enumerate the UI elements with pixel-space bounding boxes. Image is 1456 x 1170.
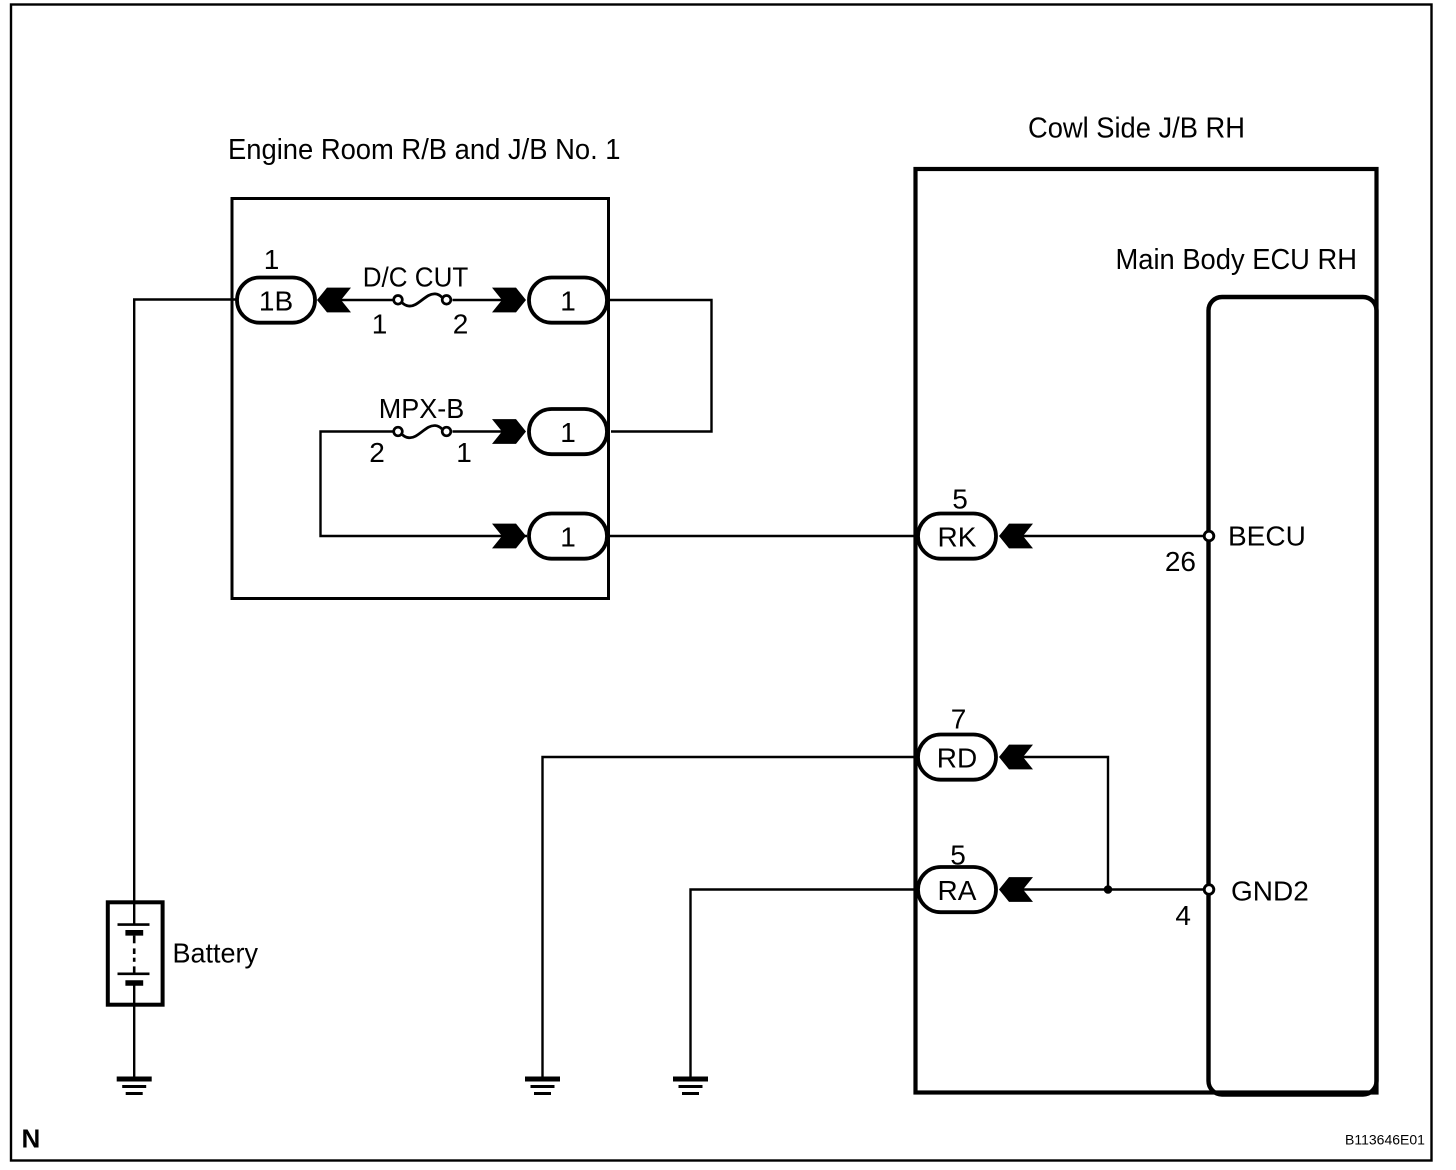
svg-text:RK: RK [938,522,977,553]
connector RA [918,867,996,912]
svg-text:1: 1 [560,522,576,553]
svg-text:Engine Room R/B and J/B No. 1: Engine Room R/B and J/B No. 1 [228,134,621,166]
svg-text:GND2: GND2 [1231,876,1309,907]
wire fuse MPX-B to connector 1 row2 [453,430,503,432]
wire 1B to fuse D/C CUT [341,299,398,301]
arrow into RA [999,877,1033,902]
fuse MPX-B [369,393,472,468]
svg-text:2: 2 [453,309,469,340]
wire row3 to RK [609,535,916,537]
svg-text:1: 1 [560,417,576,448]
connector RK [918,514,996,559]
svg-text:4: 4 [1175,900,1191,931]
wire fuse D/C CUT to connector 1 row1 [453,299,503,301]
svg-text:MPX-B: MPX-B [379,393,465,424]
svg-text:2: 2 [369,437,385,468]
svg-text:Main Body ECU RH: Main Body ECU RH [1116,244,1358,276]
wire RK to BECU [1023,535,1209,537]
wire RD arrow to junction [1023,757,1108,890]
svg-text:RD: RD [937,743,977,774]
ground battery [117,1079,152,1094]
svg-text:B113646E01: B113646E01 [1345,1132,1425,1148]
svg-text:Battery: Battery [173,938,259,969]
wire battery to connector 1B [134,300,237,902]
ECU Main Body ECU RH [1116,244,1377,1095]
connector 1B [237,278,315,323]
arrow into connector 1 row2 [492,419,526,444]
svg-text:1: 1 [372,309,388,340]
wire loop row1 to row2 [609,300,712,432]
wire RA to GND2 [1023,888,1209,890]
battery [108,901,258,1005]
junction dot [1104,885,1113,894]
arrow into 1B [317,288,351,313]
svg-text:Cowl Side J/B RH: Cowl Side J/B RH [1028,112,1245,144]
svg-text:1: 1 [560,286,576,317]
svg-text:26: 26 [1165,546,1196,577]
junction block Engine Room R/B and J/B No. 1 [228,134,621,599]
svg-text:D/C CUT: D/C CUT [363,262,469,293]
arrow into RD [999,745,1033,770]
arrow into RK [999,524,1033,549]
junction block Cowl Side J/B RH [916,112,1377,1092]
svg-text:N: N [22,1124,41,1154]
connector 1 row2 [529,409,607,454]
connector 1 row3 [529,514,607,559]
wire battery to ground [133,1005,135,1077]
node BECU pin 26 [1165,521,1306,578]
svg-text:1: 1 [264,244,280,275]
wire RD to ground [543,757,917,1077]
svg-text:1: 1 [456,437,472,468]
wire MPX-B branch [321,432,528,537]
node GND2 pin 4 [1175,876,1308,932]
svg-text:BECU: BECU [1228,521,1306,552]
svg-text:5: 5 [952,484,968,515]
svg-text:1B: 1B [259,286,293,317]
fuse D/C CUT [363,262,469,340]
ground RA [673,1079,708,1094]
connector RD [918,735,996,780]
wire RA to ground [691,890,917,1078]
arrow into connector 1 row1 [492,288,526,313]
svg-text:RA: RA [938,875,977,906]
connector 1 row1 [529,278,607,323]
ground RD [525,1079,560,1094]
svg-text:7: 7 [951,704,967,735]
arrow into connector 1 row3 [492,524,526,549]
